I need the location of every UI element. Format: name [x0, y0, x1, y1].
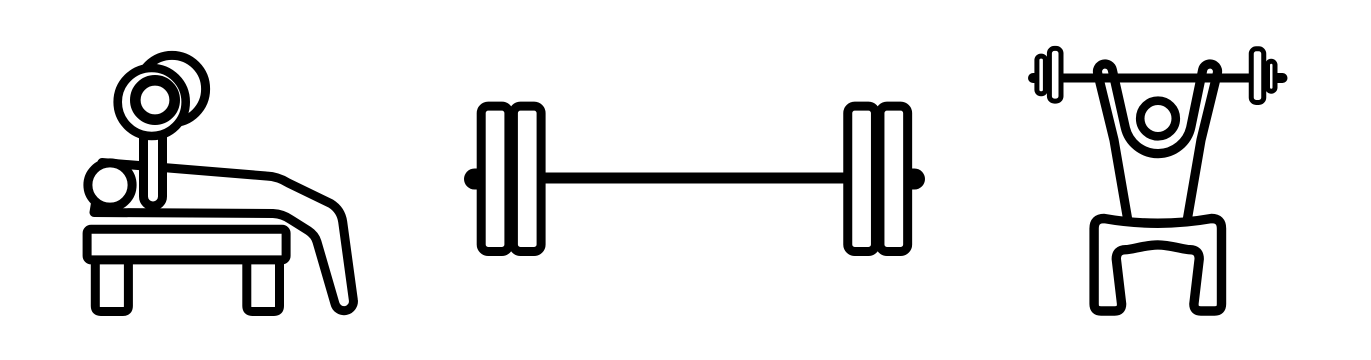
head: [88, 163, 132, 207]
left plate 2: [513, 106, 541, 251]
right short plate: [1268, 61, 1276, 91]
bar: [474, 173, 915, 184]
bench left leg: [95, 259, 128, 312]
overhead bar: [1033, 74, 1283, 83]
weight back plate: [138, 55, 205, 122]
weight front plate: [118, 68, 186, 136]
bench right leg: [247, 259, 280, 312]
body torso and leg: [94, 163, 353, 311]
right tall plate: [1251, 49, 1264, 103]
left bar nub: [1033, 73, 1040, 83]
arms and torso: [1097, 64, 1217, 227]
arm: [144, 104, 163, 206]
left tall plate: [1049, 48, 1061, 101]
head: [1140, 101, 1176, 137]
right sleeve nub: [906, 169, 915, 190]
right bar nub: [1276, 73, 1283, 83]
hips and legs: [1094, 219, 1221, 312]
right plate 1: [848, 106, 876, 251]
left plate 1: [481, 106, 509, 251]
ICON 2: barbell: [474, 106, 915, 251]
right plate 2: [880, 106, 908, 251]
left sleeve nub: [475, 169, 484, 190]
ICON 1: bench press: [87, 55, 353, 311]
ICON 3: overhead press: [1033, 48, 1283, 311]
bench top: [87, 229, 286, 260]
weight hub: [135, 80, 174, 119]
left short plate: [1037, 56, 1046, 94]
